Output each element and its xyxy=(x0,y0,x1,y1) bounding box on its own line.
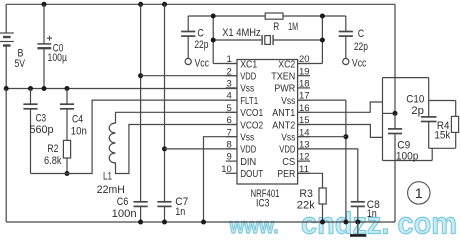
svg-text:22mH: 22mH xyxy=(97,184,125,196)
wire FLT1 net xyxy=(31,100,238,173)
C9 label xyxy=(397,139,410,151)
pin 2 stub xyxy=(226,75,237,77)
R value 1M xyxy=(288,21,298,33)
svg-text:TXEN: TXEN xyxy=(271,72,295,83)
pin 19 stub xyxy=(298,75,310,77)
C6 label xyxy=(117,196,129,208)
C6 value 100n xyxy=(112,208,137,220)
wire Vcc branch C7 xyxy=(164,4,166,202)
pin 20 stub xyxy=(298,63,310,65)
svg-text:XC2: XC2 xyxy=(278,59,295,70)
svg-text:R3: R3 xyxy=(299,188,313,200)
junction rail / battery xyxy=(4,86,9,91)
pin 15 name ANT2 xyxy=(272,120,295,131)
pin 3 number xyxy=(227,79,232,90)
pin 13 number xyxy=(299,140,310,151)
svg-text:VDD: VDD xyxy=(279,145,295,156)
junction R2 / FLT1 wire xyxy=(65,171,70,176)
resistor R4 xyxy=(451,101,458,149)
junction ground / C7 xyxy=(162,220,167,225)
wire XC2 pin 20 xyxy=(298,63,323,65)
svg-text:PER: PER xyxy=(277,169,295,180)
svg-text:5V: 5V xyxy=(15,58,26,70)
ground symbol xyxy=(350,222,366,235)
wire ground rail xyxy=(6,221,395,223)
wire Vss vertical right xyxy=(345,100,347,222)
pin 19 name TXEN xyxy=(271,72,295,83)
capacitor C8 xyxy=(351,202,365,222)
Vcc left label xyxy=(195,58,210,70)
svg-text:10n: 10n xyxy=(71,125,87,137)
svg-text:C3: C3 xyxy=(36,113,47,125)
pin 18 name PWR xyxy=(274,84,295,95)
wire Vcc feed tap xyxy=(383,112,396,114)
svg-text:5: 5 xyxy=(227,103,232,114)
svg-text:VCO1: VCO1 xyxy=(240,108,263,119)
C0 value 100u xyxy=(48,52,68,64)
svg-text:20: 20 xyxy=(299,54,310,65)
pin 5 number xyxy=(227,103,232,114)
pin 10 name DOUT xyxy=(240,169,264,180)
antenna loop top edge xyxy=(383,77,429,79)
pin 14 number xyxy=(299,127,310,138)
wire Vss pin 17 xyxy=(298,99,346,101)
L1 value 22mH xyxy=(97,184,125,196)
pin 20 number xyxy=(299,54,310,65)
wire Vcc top rail xyxy=(6,3,395,5)
junction ground / R3 xyxy=(320,220,325,225)
X1 label xyxy=(222,27,261,39)
svg-text:2p: 2p xyxy=(411,105,424,117)
R2 value 6.8k xyxy=(44,155,62,167)
svg-text:3: 3 xyxy=(227,79,232,90)
pin 8 name VDD xyxy=(240,145,256,156)
svg-text:6: 6 xyxy=(227,115,232,126)
svg-text:4: 4 xyxy=(227,91,232,102)
resistor R xyxy=(265,13,283,19)
svg-text:1n: 1n xyxy=(367,208,377,220)
svg-text:100p: 100p xyxy=(396,150,419,162)
battery label 5V xyxy=(15,58,26,70)
pin 10 stub xyxy=(226,172,237,174)
C0 plus sign xyxy=(47,36,52,41)
capacitor C7 xyxy=(157,202,171,222)
C4 label xyxy=(72,113,83,125)
pin 11 stub xyxy=(298,172,310,174)
C8 label xyxy=(367,199,380,211)
C3 value 560p xyxy=(30,124,54,136)
pin 2 number xyxy=(227,66,232,77)
pin 7 name Vss xyxy=(240,133,254,144)
R label xyxy=(273,21,279,33)
wire Vss rail to pin 3 xyxy=(6,88,237,90)
svg-text:1n: 1n xyxy=(175,206,185,218)
junction rail / C3 xyxy=(28,86,33,91)
pin 14 stub xyxy=(298,136,310,138)
junction top rail / C7 branch xyxy=(162,2,167,7)
Vcc right label xyxy=(352,58,367,70)
svg-text:Vcc: Vcc xyxy=(352,58,367,70)
pin 8 stub xyxy=(226,148,237,150)
svg-text:DIN: DIN xyxy=(240,157,256,168)
wire VDD pin 13 to C8 xyxy=(298,149,358,203)
junction crystal left top xyxy=(211,14,216,19)
pin 17 number xyxy=(299,91,310,102)
svg-text:C4: C4 xyxy=(72,113,83,125)
capacitor C9 xyxy=(388,113,402,160)
svg-text:100n: 100n xyxy=(112,208,137,220)
capacitor C10 xyxy=(421,101,437,149)
capacitor C 22p right xyxy=(339,16,353,58)
pin 4 number xyxy=(227,91,232,102)
pin 9 stub xyxy=(226,160,237,162)
pin 11 number xyxy=(299,164,309,175)
pin 16 number xyxy=(299,103,310,114)
svg-text:C: C xyxy=(358,28,365,40)
pin 3 name Vss xyxy=(240,84,254,95)
C9 value 100p xyxy=(396,150,419,162)
battery B xyxy=(0,4,14,88)
svg-text:VDD: VDD xyxy=(240,72,256,83)
svg-text:560p: 560p xyxy=(30,124,54,136)
svg-text:VCO2: VCO2 xyxy=(240,120,263,131)
svg-text:ANT2: ANT2 xyxy=(272,120,295,131)
svg-text:Vcc: Vcc xyxy=(195,58,210,70)
svg-text:VDD: VDD xyxy=(240,145,256,156)
wire C10 R4 bottom link xyxy=(429,147,456,149)
IC label NRF401 xyxy=(251,188,280,200)
wire PER pin 11 to R3 xyxy=(298,173,323,188)
svg-text:6.8k: 6.8k xyxy=(44,155,62,167)
Vcc terminal right xyxy=(343,58,349,64)
IC label IC3 xyxy=(256,198,270,210)
C 22p right label C xyxy=(358,28,365,40)
pin 12 stub xyxy=(298,160,310,162)
pin 17 stub xyxy=(298,99,310,101)
capacitor C6 xyxy=(134,202,148,222)
capacitor C4 xyxy=(60,89,74,141)
svg-text:DOUT: DOUT xyxy=(240,169,264,180)
svg-text:PWR: PWR xyxy=(274,84,295,95)
battery label B xyxy=(18,48,24,60)
capacitor C 22p left xyxy=(181,16,195,58)
pin 18 stub xyxy=(298,87,310,89)
C10 value 2p xyxy=(411,105,424,117)
pin 18 number xyxy=(299,79,310,90)
junction crystal left xyxy=(211,38,216,43)
pin 5 stub xyxy=(226,111,237,113)
antenna loop right step xyxy=(429,78,456,101)
pin 4 stub xyxy=(226,99,237,101)
resistor R2 xyxy=(63,140,70,173)
wire Vss pin 14 xyxy=(298,136,346,138)
pin 15 stub xyxy=(298,124,310,126)
svg-text:IC3: IC3 xyxy=(256,198,270,210)
pin 1 name XC1 xyxy=(240,59,257,70)
inductor L1 xyxy=(109,112,237,173)
wire antenna net to ground xyxy=(394,161,396,223)
R4 label xyxy=(437,120,450,132)
op-amp U1 IC NRF401 box xyxy=(237,60,298,185)
pin 9 number xyxy=(227,152,232,163)
svg-text:Vss: Vss xyxy=(240,84,254,95)
svg-text:9: 9 xyxy=(227,152,232,163)
svg-text:L1: L1 xyxy=(103,171,112,183)
R2 label xyxy=(47,143,58,155)
svg-text:12: 12 xyxy=(299,152,310,163)
svg-text:8: 8 xyxy=(227,140,232,151)
pin 1 number xyxy=(227,54,232,65)
pin 15 number xyxy=(299,115,310,126)
pin 6 number xyxy=(227,115,232,126)
capacitor C3 xyxy=(23,89,37,174)
pin 16 stub xyxy=(298,111,310,113)
svg-text:FLT1: FLT1 xyxy=(240,96,258,107)
junction VDD pin2 xyxy=(138,73,143,78)
wire Vcc branch C6 xyxy=(140,4,142,202)
pin 8 number xyxy=(227,140,232,151)
pin 2 name VDD xyxy=(240,72,256,83)
svg-text:2: 2 xyxy=(227,66,232,77)
svg-text:1: 1 xyxy=(415,185,423,201)
antenna loop left edge xyxy=(382,78,384,161)
crystal X1 xyxy=(262,35,273,45)
svg-text:www.: www. xyxy=(229,215,279,238)
svg-text:CS: CS xyxy=(282,157,295,168)
svg-text:R: R xyxy=(273,21,279,33)
wire XC line R xyxy=(188,15,346,17)
pin 10 number xyxy=(221,164,232,175)
svg-text:Vss: Vss xyxy=(240,133,254,144)
svg-text:19: 19 xyxy=(299,66,310,77)
junction rail / C0 xyxy=(42,86,47,91)
C3 label xyxy=(36,113,47,125)
svg-text:10: 10 xyxy=(221,164,232,175)
pin 5 name VCO1 xyxy=(240,108,263,119)
svg-text:XC1: XC1 xyxy=(240,59,257,70)
svg-text:C6: C6 xyxy=(117,196,129,208)
pin 1 stub xyxy=(226,63,237,65)
svg-text:22p: 22p xyxy=(194,39,208,51)
junction crystal right xyxy=(320,38,325,43)
svg-text:C10: C10 xyxy=(406,93,424,105)
pin 7 stub xyxy=(226,136,237,138)
C7 label xyxy=(175,196,188,208)
wire XC1 pin 1 xyxy=(213,63,237,65)
C4 value 10n xyxy=(71,125,87,137)
Vcc terminal left xyxy=(185,58,191,64)
junction crystal right top xyxy=(320,14,325,19)
C0 label xyxy=(53,43,64,55)
svg-text:Vss: Vss xyxy=(281,133,295,144)
junction rail / C4 xyxy=(65,86,70,91)
resistor R3 xyxy=(319,188,326,222)
svg-text:22p: 22p xyxy=(354,41,368,53)
C 22p right value xyxy=(354,41,368,53)
C10 label xyxy=(406,93,424,105)
svg-text:100µ: 100µ xyxy=(48,52,68,64)
C 22p left label C xyxy=(197,27,204,39)
C8 value 1n xyxy=(367,208,377,220)
junction top rail / C0 xyxy=(42,2,47,7)
antenna loop bottom edge xyxy=(383,148,433,160)
watermark www.cndzz.com xyxy=(229,206,457,240)
svg-text:1: 1 xyxy=(227,54,232,65)
R4 value 15k xyxy=(434,130,450,142)
capacitor C0 xyxy=(37,4,51,88)
pin 9 name DIN xyxy=(240,157,256,168)
pin 12 name CS xyxy=(282,157,295,168)
pin 13 name VDD xyxy=(279,145,295,156)
pin 11 name PER xyxy=(277,169,295,180)
pin 4 name FLT1 xyxy=(240,96,258,107)
wire VDD pin 2 xyxy=(141,75,237,77)
svg-text:C: C xyxy=(197,27,204,39)
junction ground / pin7 xyxy=(201,220,206,225)
wire ANT1 pin 16 xyxy=(298,102,383,112)
junction ground / Vss vertical xyxy=(343,220,348,225)
node marker circle 1 xyxy=(408,182,430,204)
junction VDD pin8 xyxy=(162,146,167,151)
svg-text:Vss: Vss xyxy=(281,96,295,107)
pin 17 name Vss xyxy=(281,96,295,107)
wire crystal right vertical xyxy=(321,16,323,64)
pin 13 stub xyxy=(298,148,310,150)
pin 16 name ANT1 xyxy=(272,108,295,119)
wire ANT2 pin 15 xyxy=(298,125,383,138)
svg-text:22k: 22k xyxy=(297,199,315,211)
pin 14 name Vss xyxy=(281,133,295,144)
junction Vss pin 14 xyxy=(343,134,348,139)
svg-text:1M: 1M xyxy=(288,21,298,33)
wire left edge to ground xyxy=(5,89,7,223)
L1 label xyxy=(103,171,112,183)
wire VDD pin 8 xyxy=(165,148,238,150)
junction top rail / C6 branch xyxy=(138,2,143,7)
R3 value 22k xyxy=(297,199,315,211)
junction ground / C8 xyxy=(355,220,360,225)
junction ground / C6 xyxy=(138,220,143,225)
pin 6 stub xyxy=(226,124,237,126)
svg-text:X1 4MHz: X1 4MHz xyxy=(222,27,261,39)
pin 6 name VCO2 xyxy=(240,120,263,131)
svg-text:ANT1: ANT1 xyxy=(272,108,295,119)
junction Vcc feed xyxy=(393,111,398,116)
svg-text:7: 7 xyxy=(227,127,232,138)
pin 7 number xyxy=(227,127,232,138)
wire crystal left vertical xyxy=(212,16,214,64)
svg-text:18: 18 xyxy=(299,79,310,90)
wire crystal line xyxy=(213,39,322,41)
pin 3 stub xyxy=(226,87,237,89)
C7 value 1n xyxy=(175,206,185,218)
pin 20 name XC2 xyxy=(278,59,295,70)
wire Vcc feed vertical xyxy=(394,4,396,113)
svg-text:15k: 15k xyxy=(434,130,450,142)
svg-text:R2: R2 xyxy=(47,143,58,155)
wire Vss pin 7 xyxy=(204,137,238,222)
pin 12 number xyxy=(299,152,310,163)
R3 label xyxy=(299,188,313,200)
C 22p left value xyxy=(194,39,208,51)
pin 19 number xyxy=(299,66,310,77)
